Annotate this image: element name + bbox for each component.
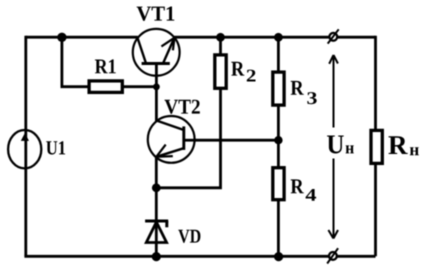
label R3 letter	[291, 81, 304, 95]
node junction VD bottom	[152, 252, 161, 261]
label VD	[178, 230, 200, 243]
wire VT2 base line	[195, 139, 279, 142]
node junction top-left	[57, 33, 66, 42]
source U1 arrow	[21, 133, 29, 141]
wire R3 bottom lead	[277, 106, 280, 141]
resistor R1	[89, 81, 122, 93]
wire right rail upper	[374, 36, 377, 131]
wire top rail left	[26, 36, 138, 39]
label R2 letter	[231, 62, 244, 76]
node junction VT2 emitter	[152, 183, 161, 192]
wire R2 top lead	[219, 37, 222, 54]
wire R1 to base node	[122, 85, 157, 88]
node junction R3 top	[274, 33, 283, 42]
node junction divider R3 R4	[274, 136, 282, 144]
wire R4 bottom lead	[277, 201, 280, 257]
wire VD vertical	[155, 188, 158, 256]
resistor R3	[273, 72, 284, 105]
label Rn letter	[389, 136, 408, 154]
wire VT2 emitter node to R2 bottom	[156, 89, 220, 188]
resistor Rn load	[371, 130, 382, 163]
label VT1	[137, 7, 175, 21]
label Rn subscript	[410, 147, 419, 155]
label VT2	[165, 100, 200, 114]
label R2 subscript	[247, 70, 256, 82]
wire R3 top lead	[277, 37, 280, 72]
wire R4 top lead	[277, 140, 280, 167]
transistor VT2	[148, 116, 196, 188]
resistor R2	[215, 55, 226, 88]
wire R1 branch	[62, 37, 90, 86]
wire right rail lower	[374, 163, 377, 256]
source U1 circle	[8, 130, 41, 168]
label R4 subscript	[306, 189, 317, 201]
wire VT1 base down	[155, 64, 158, 121]
wire top rail right	[174, 36, 375, 39]
terminal bottom	[327, 248, 338, 263]
label Un subscript	[346, 145, 354, 153]
label U1	[46, 141, 65, 154]
transistor VT1	[133, 29, 180, 76]
Un arrow down	[328, 159, 338, 239]
Un arrow up	[329, 55, 338, 128]
label R3 subscript	[307, 92, 316, 104]
label Un letter	[327, 136, 344, 154]
terminal top	[328, 29, 339, 43]
resistor R4	[273, 168, 284, 200]
node junction R4 bottom	[274, 252, 283, 261]
wire left rail	[24, 36, 27, 256]
node junction R2 top	[216, 33, 225, 42]
wire bottom rail	[24, 255, 375, 258]
label R1	[95, 59, 116, 73]
zener diode VD	[145, 221, 168, 243]
node junction R1 to base	[153, 83, 160, 90]
label R4 letter	[291, 179, 304, 193]
